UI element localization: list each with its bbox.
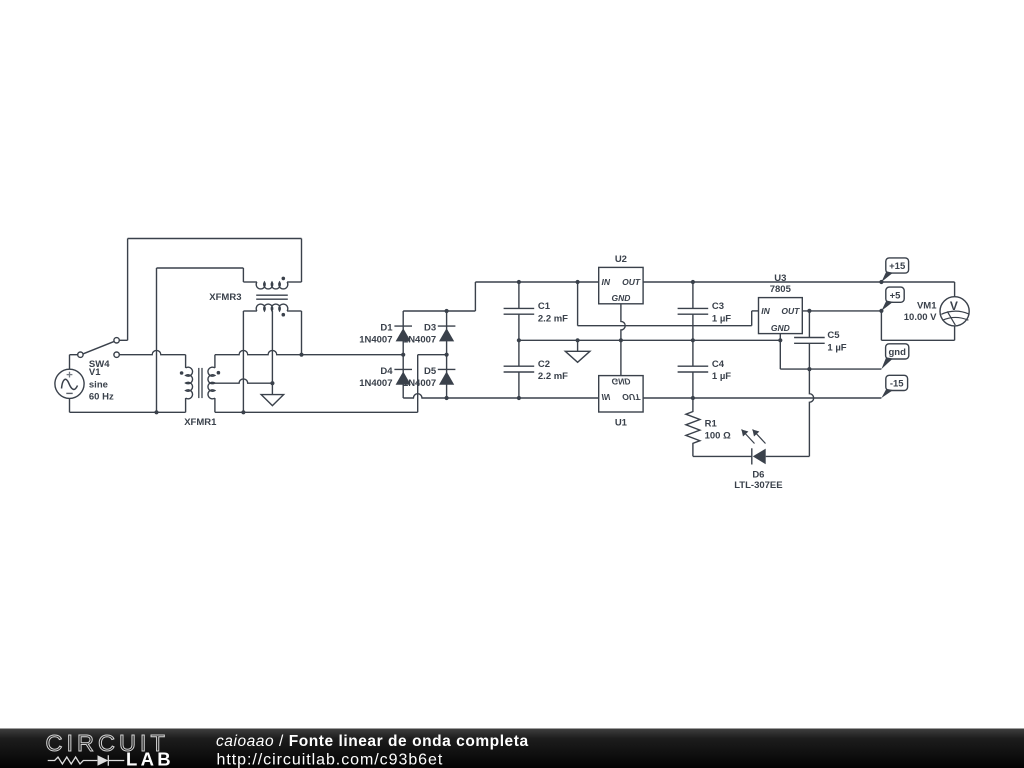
svg-text:XFMR1: XFMR1: [184, 417, 217, 428]
svg-text:7805: 7805: [770, 284, 792, 295]
svg-text:U1: U1: [615, 417, 628, 428]
svg-text:2.2 mF: 2.2 mF: [538, 371, 568, 382]
svg-text:D3: D3: [424, 323, 436, 334]
svg-text:R1: R1: [705, 418, 718, 429]
svg-text:1N4007: 1N4007: [359, 378, 392, 389]
svg-text:LTL-307EE: LTL-307EE: [734, 480, 782, 491]
svg-text:C4: C4: [712, 359, 725, 370]
svg-text:C2: C2: [538, 359, 550, 370]
svg-text:D1: D1: [380, 323, 393, 334]
svg-text:1N4007: 1N4007: [359, 335, 392, 346]
svg-text:1 µF: 1 µF: [712, 371, 731, 382]
svg-text:100 Ω: 100 Ω: [705, 430, 731, 441]
svg-text:IN: IN: [602, 277, 611, 287]
svg-text:http://circuitlab.com/c93b6et: http://circuitlab.com/c93b6et: [217, 752, 444, 768]
svg-text:IN: IN: [602, 392, 611, 402]
svg-text:V1: V1: [89, 367, 101, 378]
svg-text:+15: +15: [889, 261, 906, 272]
svg-text:caioaao / Fonte linear de onda: caioaao / Fonte linear de onda completa: [216, 733, 529, 750]
svg-text:+5: +5: [890, 290, 902, 301]
svg-text:GND: GND: [611, 376, 630, 386]
svg-text:D4: D4: [380, 366, 393, 377]
svg-text:sine: sine: [89, 380, 108, 391]
svg-text:gnd: gnd: [888, 347, 906, 358]
svg-text:1N4007: 1N4007: [403, 378, 436, 389]
svg-text:IN: IN: [761, 306, 770, 316]
svg-text:1 µF: 1 µF: [712, 313, 731, 324]
svg-text:GND: GND: [611, 293, 630, 303]
svg-text:VM1: VM1: [917, 301, 937, 312]
svg-text:1N4007: 1N4007: [403, 335, 436, 346]
svg-text:C3: C3: [712, 301, 724, 312]
svg-text:60 Hz: 60 Hz: [89, 391, 114, 402]
svg-text:XFMR3: XFMR3: [209, 292, 241, 303]
svg-text:OUT: OUT: [781, 306, 800, 316]
svg-text:U3: U3: [774, 273, 786, 284]
svg-text:OUT: OUT: [622, 392, 641, 402]
svg-text:-15: -15: [890, 379, 904, 390]
svg-text:10.00 V: 10.00 V: [904, 312, 937, 323]
svg-text:LAB: LAB: [126, 749, 174, 768]
svg-text:GND: GND: [771, 323, 790, 333]
svg-text:U2: U2: [615, 254, 627, 265]
svg-text:OUT: OUT: [622, 277, 641, 287]
svg-text:2.2 mF: 2.2 mF: [538, 313, 568, 324]
svg-text:C5: C5: [827, 330, 840, 341]
svg-text:D5: D5: [424, 366, 437, 377]
svg-text:1 µF: 1 µF: [827, 342, 846, 353]
svg-text:C1: C1: [538, 301, 551, 312]
